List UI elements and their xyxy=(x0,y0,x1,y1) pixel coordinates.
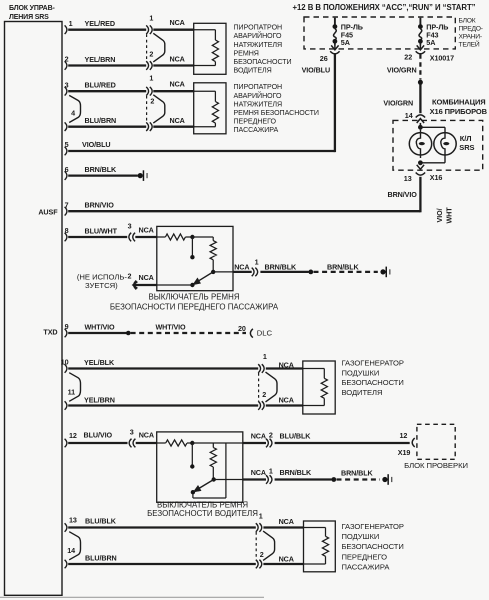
svg-text:2: 2 xyxy=(260,550,264,559)
svg-text:+12 В В ПОЛОЖЕНИЯХ “ACC”,“RUN”: +12 В В ПОЛОЖЕНИЯХ “ACC”,“RUN” И “START” xyxy=(293,3,476,12)
connector pin3 at belt switch (passenger) xyxy=(128,222,154,242)
svg-text:X10017: X10017 xyxy=(430,53,454,62)
svg-text:BLU/BLK: BLU/BLK xyxy=(85,516,117,525)
svg-text:1: 1 xyxy=(269,467,273,476)
svg-text:РЕМНЯ БЕЗОПАСНОСТИ: РЕМНЯ БЕЗОПАСНОСТИ xyxy=(234,109,319,117)
svg-text:10: 10 xyxy=(61,358,69,367)
SRS warning lamp K/L SRS (bulb 1) xyxy=(409,130,431,158)
inline connector pins 1-2 (driver airbag) xyxy=(258,352,294,410)
svg-text:БЕЗОПАСНОСТИ: БЕЗОПАСНОСТИ xyxy=(234,58,292,66)
wire pin10 YEL/BLK xyxy=(68,358,303,369)
svg-text:БЕЗОПАСНОСТИ: БЕЗОПАСНОСТИ xyxy=(342,542,404,551)
svg-text:ГАЗОГЕНЕРАТОР: ГАЗОГЕНЕРАТОР xyxy=(342,522,404,531)
wire pin6 BRN/BLK to ground xyxy=(68,165,138,176)
DLC connector pin 20 xyxy=(238,324,273,337)
check block connector X19 pin 12 xyxy=(398,431,415,457)
connector pin3 at belt switch (driver) xyxy=(129,427,154,447)
svg-text:26: 26 xyxy=(320,54,328,63)
svg-text:АВАРИЙНОГО: АВАРИЙНОГО xyxy=(234,91,283,100)
svg-text:5: 5 xyxy=(65,140,69,149)
svg-text:ВЫКЛЮЧАТЕЛЬ РЕМНЯ: ВЫКЛЮЧАТЕЛЬ РЕМНЯ xyxy=(148,293,239,302)
svg-text:ВОДИТЕЛЯ: ВОДИТЕЛЯ xyxy=(234,67,272,75)
svg-text:1: 1 xyxy=(149,74,153,83)
ground G-belt-driver xyxy=(382,474,392,485)
svg-text:BRN/BLK: BRN/BLK xyxy=(341,469,374,478)
wire label VIO/WHT (rotated) xyxy=(435,207,453,224)
SRS warning lamp bulb 2 (parallel) xyxy=(420,127,456,163)
wire pin5 VIO/BLU to fuse F45 xyxy=(68,54,335,152)
wire pin12 BLU/VIO to driver belt switch xyxy=(68,431,157,443)
SRS unit pin 6 connector xyxy=(65,165,69,180)
wire into lamp network xyxy=(419,123,421,128)
svg-text:BRN/VIO: BRN/VIO xyxy=(388,190,418,199)
svg-text:NCA: NCA xyxy=(170,80,185,89)
svg-text:2: 2 xyxy=(269,430,273,439)
SRS unit pin 9 connector xyxy=(65,322,69,337)
svg-text:AUSF: AUSF xyxy=(38,208,58,217)
svg-text:14: 14 xyxy=(67,546,75,555)
svg-text:BRN/BLK: BRN/BLK xyxy=(265,262,298,271)
inline connector pins 1-2 (squib passenger) xyxy=(146,74,185,131)
svg-text:БЕЗОПАСНОСТИ ПЕРЕДНЕГО ПАССА: БЕЗОПАСНОСТИ ПЕРЕДНЕГО ПАССАЖИРА xyxy=(110,302,279,311)
instrument cluster КОМБИНАЦИЯ ПРИБОРОВ (dashed) xyxy=(393,97,488,170)
inline connector pins 1-2 (squib driver) xyxy=(146,13,185,70)
svg-text:13: 13 xyxy=(69,516,77,525)
driver airbag gas generator ГАЗОГЕНЕРАТОР ПОДУШКИ ВОДИТЕЛЯ xyxy=(303,361,335,414)
svg-text:ПЕРЕДНЕГО: ПЕРЕДНЕГО xyxy=(234,118,277,126)
svg-text:2: 2 xyxy=(262,390,266,399)
svg-text:1: 1 xyxy=(149,13,153,22)
svg-text:BLU/RED: BLU/RED xyxy=(85,81,116,90)
svg-text:1: 1 xyxy=(69,19,73,28)
SRS unit pin 14 connector xyxy=(65,546,76,568)
svg-text:22: 22 xyxy=(404,53,412,62)
SRS control unit БЛОК УПРАВЛЕНИЯ SRS xyxy=(5,5,63,595)
scan artifact line at bottom xyxy=(0,596,264,598)
front passenger airbag gas generator ГАЗОГЕНЕРАТОР ПОДУШКИ ПЕРЕДНЕГО ПАССАЖИРА xyxy=(304,521,336,572)
svg-text:BLU/BRN: BLU/BRN xyxy=(85,553,117,562)
svg-text:13: 13 xyxy=(404,174,412,183)
svg-text:1: 1 xyxy=(255,257,259,266)
svg-text:РЕМНЯ: РЕМНЯ xyxy=(234,49,259,57)
SRS unit pin 2 connector xyxy=(65,55,69,70)
svg-text:3: 3 xyxy=(65,80,69,89)
svg-text:WHT: WHT xyxy=(444,207,453,224)
svg-text:NCA: NCA xyxy=(279,517,294,526)
svg-text:VIO/BLU: VIO/BLU xyxy=(82,140,110,149)
svg-text:ПРЕДО-: ПРЕДО- xyxy=(459,26,483,33)
fuse F45 5A xyxy=(330,18,363,54)
front passenger seat-belt pretensioner squib ПИРОПАТРОН (ремня пассажира) xyxy=(194,83,226,134)
belt switch caption (driver) xyxy=(147,501,258,519)
pair bracket pins 3-4 xyxy=(69,95,80,122)
svg-text:К/Л: К/Л xyxy=(460,134,472,143)
svg-text:12: 12 xyxy=(69,431,77,440)
wire pin9 WHT/VIO to DLC xyxy=(68,322,246,335)
svg-text:7: 7 xyxy=(65,200,69,209)
svg-text:БЛОК: БЛОК xyxy=(459,18,476,25)
svg-text:2: 2 xyxy=(65,55,69,64)
svg-text:БЕЗОПАСНОСТИ ВОДИТЕЛЯ: БЕЗОПАСНОСТИ ВОДИТЕЛЯ xyxy=(147,509,258,518)
node splice bottom of lamps xyxy=(418,160,423,165)
inline connector pins 1-2 (passenger airbag) xyxy=(256,512,294,569)
svg-text:БЕЗОПАСНОСТИ: БЕЗОПАСНОСТИ xyxy=(342,378,404,387)
svg-text:ХРАНИ-: ХРАНИ- xyxy=(459,34,482,41)
svg-text:NCA: NCA xyxy=(279,554,294,563)
SRS unit pin 10 connector xyxy=(61,358,69,373)
svg-text:9: 9 xyxy=(65,322,69,331)
svg-text:NCA: NCA xyxy=(170,116,185,125)
svg-text:1: 1 xyxy=(259,512,263,521)
SRS unit pin 7 connector xyxy=(65,200,69,215)
svg-text:WHT/VIO: WHT/VIO xyxy=(85,322,116,331)
svg-text:3: 3 xyxy=(130,427,134,436)
wire pin7 BRN/VIO from cluster xyxy=(68,177,420,213)
driver airbag caption xyxy=(342,359,404,397)
svg-text:ПАССАЖИРА: ПАССАЖИРА xyxy=(342,563,391,572)
wire pin2 YEL/BRN xyxy=(68,55,194,66)
SRS unit pin 13 connector xyxy=(65,516,77,532)
svg-text:BLU/VIO: BLU/VIO xyxy=(84,431,113,440)
node splice top of lamps xyxy=(418,125,423,130)
belt switch caption (passenger) xyxy=(110,293,279,312)
SRS unit pin 3 connector xyxy=(65,80,69,95)
svg-text:БЛОК ПРОВЕРКИ: БЛОК ПРОВЕРКИ xyxy=(404,461,468,470)
svg-text:YEL/BLK: YEL/BLK xyxy=(84,358,115,367)
ground G-pin6 xyxy=(138,170,148,181)
driver seat-belt pretensioner squib ПИРОПАТРОН (ремня водителя) xyxy=(194,23,226,74)
svg-text:VIO/GRN: VIO/GRN xyxy=(383,98,413,107)
svg-text:BRN/BLK: BRN/BLK xyxy=(280,468,313,477)
svg-text:5A: 5A xyxy=(426,38,435,47)
svg-text:ПОДУШКИ: ПОДУШКИ xyxy=(342,532,380,541)
svg-text:VIO/BLU: VIO/BLU xyxy=(302,66,330,75)
svg-text:ПАССАЖИРА: ПАССАЖИРА xyxy=(234,126,279,134)
svg-text:X16: X16 xyxy=(430,173,443,182)
svg-text:NCA: NCA xyxy=(251,468,266,477)
svg-text:12: 12 xyxy=(400,431,408,440)
svg-text:SRS: SRS xyxy=(459,143,474,152)
svg-text:NCA: NCA xyxy=(279,395,294,404)
SRS unit pin 8 connector xyxy=(65,226,69,241)
SRS unit pin 12 connector xyxy=(65,431,77,447)
SRS unit pin 4 connector xyxy=(65,109,75,131)
wire pin13 BLU/BLK xyxy=(68,516,303,527)
svg-text:20: 20 xyxy=(238,324,246,333)
svg-text:5A: 5A xyxy=(341,38,350,47)
wire pin1 YEL/RED xyxy=(68,19,194,30)
svg-text:X16 ПРИБОРОВ: X16 ПРИБОРОВ xyxy=(430,107,488,116)
svg-text:ПИРОПАТРОН: ПИРОПАТРОН xyxy=(234,24,283,32)
wire pin14 BLU/BRN xyxy=(68,553,303,564)
svg-text:NCA: NCA xyxy=(139,431,154,440)
fuse block БЛОК ПРЕДОХРАНИТЕЛЕЙ (dashed) xyxy=(304,17,483,49)
svg-text:3: 3 xyxy=(128,222,132,231)
svg-text:BLU/BRN: BLU/BRN xyxy=(85,116,117,125)
svg-text:ЗУЕТСЯ): ЗУЕТСЯ) xyxy=(85,281,118,290)
svg-text:BRN/BLK: BRN/BLK xyxy=(327,262,360,271)
cluster pin 13 connector xyxy=(404,163,443,183)
svg-text:BRN/BLK: BRN/BLK xyxy=(85,165,118,174)
svg-text:8: 8 xyxy=(65,226,69,235)
ground G-belt-passenger xyxy=(380,267,390,278)
SRS unit pin 1 connector xyxy=(65,19,73,34)
svg-text:DLC: DLC xyxy=(257,328,273,337)
svg-text:YEL/BRN: YEL/BRN xyxy=(84,395,115,404)
pair bracket pins 10-11 xyxy=(69,373,80,402)
svg-text:КОМБИНАЦИЯ: КОМБИНАЦИЯ xyxy=(432,97,486,106)
svg-text:БЛОК УПРАВ-: БЛОК УПРАВ- xyxy=(9,5,55,12)
svg-text:11: 11 xyxy=(68,388,76,397)
svg-text:2: 2 xyxy=(149,49,153,58)
front passenger seat-belt switch ВЫКЛЮЧАТЕЛЬ РЕМНЯ БЕЗОПАСНОСТИ ПЕРЕДНЕГО ПАССАЖИРА xyxy=(157,226,233,290)
svg-text:НАТЯЖИТЕЛЯ: НАТЯЖИТЕЛЯ xyxy=(234,100,283,108)
wire pin8 BLU/WHT to belt switch xyxy=(68,227,157,238)
cluster pin 14 connector xyxy=(405,111,425,123)
svg-text:X19: X19 xyxy=(398,448,411,457)
svg-text:WHT/VIO: WHT/VIO xyxy=(156,322,187,331)
svg-text:NCA: NCA xyxy=(170,55,185,64)
svg-text:ПЕРЕДНЕГО: ПЕРЕДНЕГО xyxy=(342,552,388,561)
lamp caption К/Л SRS xyxy=(459,134,474,152)
svg-text:НАТЯЖИТЕЛЯ: НАТЯЖИТЕЛЯ xyxy=(234,41,283,49)
passenger airbag caption xyxy=(342,522,404,572)
svg-text:VIO/: VIO/ xyxy=(435,208,444,222)
driver belt switch output pin 1 BRN/BLK to ground xyxy=(243,467,380,484)
SRS unit pin 11 connector xyxy=(65,388,75,410)
svg-text:ГАЗОГЕНЕРАТОР: ГАЗОГЕНЕРАТОР xyxy=(342,359,404,368)
svg-text:VIO/GRN: VIO/GRN xyxy=(387,66,417,75)
svg-text:14: 14 xyxy=(405,111,413,120)
wire pin11 YEL/BRN xyxy=(68,395,303,405)
svg-text:ПИРОПАТРОН: ПИРОПАТРОН xyxy=(234,83,283,91)
wire VIO/GRN from fuse F43 (dashed then splice) xyxy=(387,54,423,113)
svg-text:BLU/WHT: BLU/WHT xyxy=(85,227,118,236)
svg-text:1: 1 xyxy=(263,352,267,361)
driver belt switch output pin 2 BLU/BLK to check block xyxy=(243,430,410,447)
fuse F43 5A xyxy=(416,18,449,54)
wire pin3 BLU/RED xyxy=(68,81,194,92)
svg-text:YEL/BRN: YEL/BRN xyxy=(85,55,116,64)
svg-text:NCA: NCA xyxy=(279,360,294,369)
pair bracket pins 13-14 xyxy=(69,532,80,560)
svg-text:BLU/BLK: BLU/BLK xyxy=(280,432,312,441)
svg-text:NCA: NCA xyxy=(139,226,154,235)
SRS unit pin 5 connector xyxy=(65,140,69,155)
svg-text:NCA: NCA xyxy=(234,262,249,271)
check block БЛОК ПРОВЕРКИ (dashed) xyxy=(404,424,468,470)
unused pin 2 of passenger belt switch xyxy=(77,271,157,290)
svg-text:АВАРИЙНОГО: АВАРИЙНОГО xyxy=(234,31,283,40)
wire pin4 BLU/BRN xyxy=(68,116,194,127)
svg-text:NCA: NCA xyxy=(251,432,266,441)
driver seat-belt switch ВЫКЛЮЧАТЕЛЬ РЕМНЯ БЕЗОПАСНОСТИ ВОДИТЕЛЯ xyxy=(157,432,243,502)
svg-text:ЛЕНИЯ SRS: ЛЕНИЯ SRS xyxy=(9,14,49,21)
svg-text:2: 2 xyxy=(127,271,131,280)
svg-text:ПОДУШКИ: ПОДУШКИ xyxy=(342,368,380,377)
svg-text:6: 6 xyxy=(65,165,69,174)
svg-text:NCA: NCA xyxy=(170,18,185,27)
svg-text:YEL/RED: YEL/RED xyxy=(85,19,115,28)
svg-text:4: 4 xyxy=(71,109,75,118)
svg-text:ТЕЛЕЙ: ТЕЛЕЙ xyxy=(459,40,480,49)
svg-text:2: 2 xyxy=(150,96,154,105)
belt switch output pin 1 BRN/BLK to ground xyxy=(233,257,378,276)
svg-text:ВОДИТЕЛЯ: ВОДИТЕЛЯ xyxy=(342,388,383,397)
svg-text:NCA: NCA xyxy=(139,273,154,282)
svg-text:BRN/VIO: BRN/VIO xyxy=(85,201,115,210)
svg-text:TXD: TXD xyxy=(43,327,57,336)
